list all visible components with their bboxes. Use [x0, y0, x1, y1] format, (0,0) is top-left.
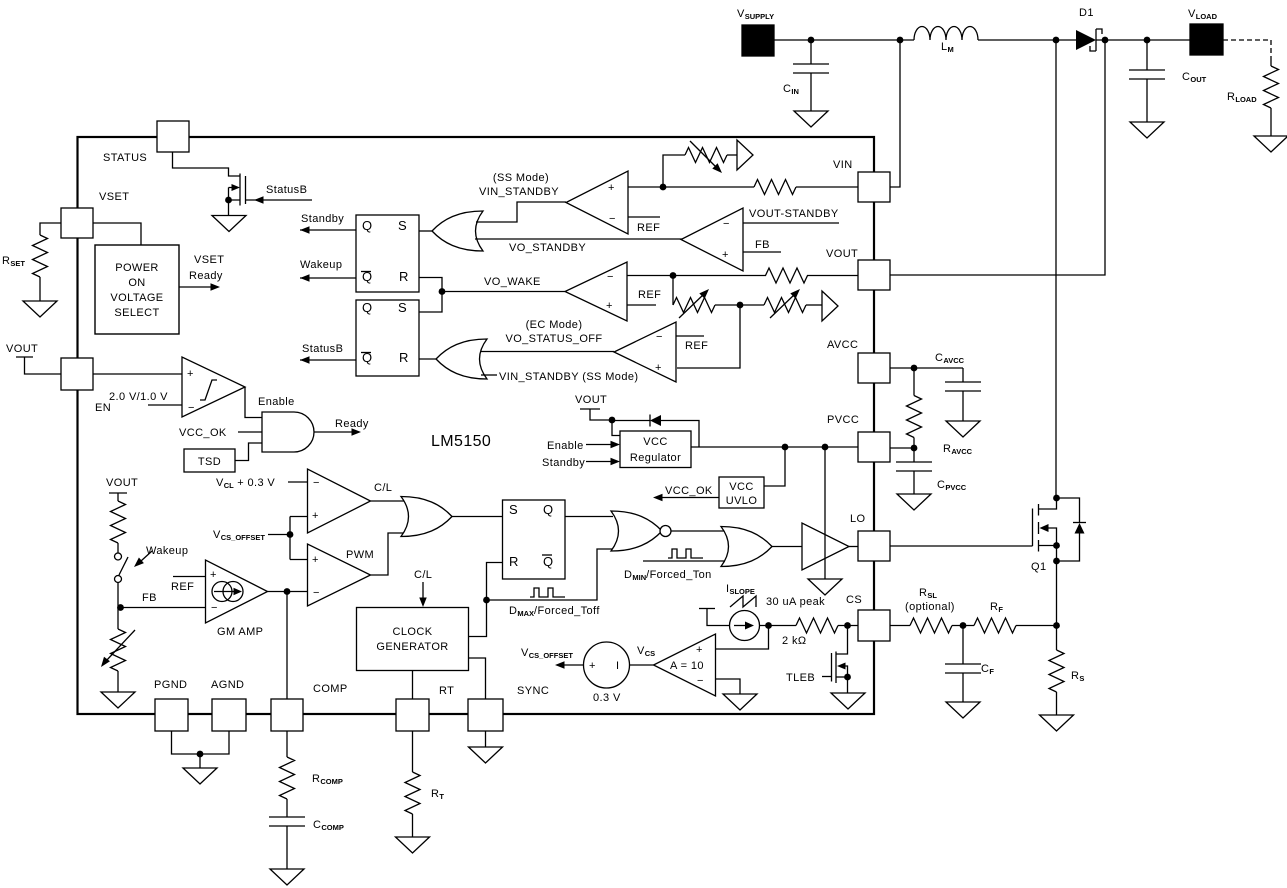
svg-text:VSET: VSET [99, 191, 129, 203]
node driver supply junction [822, 444, 829, 451]
resistor VOUT sense [766, 268, 808, 283]
pin PGND [155, 699, 188, 731]
svg-text:EN: EN [95, 402, 111, 414]
pin PVCC [858, 432, 890, 462]
svg-text:VCC_OK: VCC_OK [665, 485, 713, 497]
svg-text:CF: CF [981, 663, 994, 676]
node CF junction [960, 622, 967, 629]
resistor RAVCC [913, 368, 915, 396]
net REF stub of GM AMP [173, 576, 206, 578]
voltage source VCS offset 0.3V [584, 642, 630, 688]
net FB wire to GM AMP [121, 607, 206, 609]
wire COMP pin to RCOMP [286, 731, 288, 757]
pin SYNC [468, 699, 503, 731]
svg-text:D1: D1 [1079, 7, 1094, 19]
svg-text:VCS: VCS [637, 645, 655, 658]
svg-text:GM AMP: GM AMP [217, 626, 263, 638]
node standby divider junction [737, 302, 744, 309]
ground below A10 [723, 694, 757, 710]
ground below CAVCC [946, 421, 980, 437]
transistor Q1 [1032, 509, 1034, 547]
pin CS [858, 610, 890, 641]
signal Ready output arrow [314, 431, 353, 433]
svg-text:VCL + 0.3 V: VCL + 0.3 V [216, 477, 275, 490]
wire U1 output to SR1 S input [419, 230, 432, 232]
svg-text:Standby: Standby [301, 213, 344, 225]
svg-text:RCOMP: RCOMP [312, 773, 343, 786]
wire VSET pin to RSET [40, 223, 61, 235]
svg-text:Q: Q [543, 554, 554, 569]
ground below SYNC [469, 747, 503, 763]
resistor RSET [33, 235, 48, 277]
svg-text:−: − [723, 218, 730, 230]
svg-text:Q1: Q1 [1031, 561, 1046, 573]
wire LO pin to Q1 gate [890, 545, 1033, 547]
svg-text:C/L: C/L [414, 569, 432, 581]
svg-text:Enable: Enable [258, 396, 295, 408]
svg-text:I: I [616, 660, 619, 672]
node AVCC junction [911, 365, 918, 372]
comparator VIN_STANDBY (SS Mode) [566, 171, 628, 234]
resistor FB top divider [111, 501, 126, 543]
comparator VOUT-STANDBY [681, 208, 743, 271]
node COMP junction [284, 588, 291, 595]
ground below CCOMP [270, 869, 304, 885]
svg-text:VIN: VIN [833, 159, 853, 171]
net REF stub of VIN_STANDBY comparator [628, 216, 660, 218]
wire L_M to D1 anode [978, 39, 1076, 41]
or-gate U1 standby set [432, 211, 483, 251]
svg-text:COUT: COUT [1182, 71, 1207, 84]
node Q1 drain junction [1053, 495, 1060, 502]
wire divider junction [715, 304, 764, 306]
svg-text:REF: REF [171, 581, 194, 593]
svg-text:(SS Mode): (SS Mode) [493, 172, 549, 184]
ground below CIN [794, 111, 828, 127]
svg-text:Ready: Ready [335, 418, 369, 430]
svg-text:CPVCC: CPVCC [937, 479, 967, 492]
wire slope node to A10 + input [716, 626, 769, 650]
svg-text:VLOAD: VLOAD [1188, 8, 1218, 21]
pin AGND [212, 699, 246, 731]
wire junction to regulator input [612, 420, 620, 436]
node VCS_OFFSET junction [287, 531, 294, 538]
wire EN pin to comparator [93, 373, 182, 375]
svg-text:VOUT-STANDBY: VOUT-STANDBY [749, 208, 839, 220]
ground below status transistor [228, 200, 230, 216]
wire VIN_STANDBY + input to VIN divider node [628, 186, 754, 188]
node VOUT regulator junction [609, 417, 616, 424]
capacitor CCOMP [269, 817, 305, 826]
svg-text:Ready: Ready [189, 270, 223, 282]
svg-text:RLOAD: RLOAD [1227, 91, 1257, 104]
wire RF to RS node [1016, 625, 1057, 627]
wire 2k resistor to CS pin [838, 625, 858, 627]
wire A10 - input to ground [716, 679, 741, 694]
resistor RCOMP [280, 757, 295, 799]
wire VSUPPLY to L_M input node [774, 39, 914, 41]
transistor status PMOS [239, 174, 241, 206]
net VIN_STANDBY SS Mode stub [481, 374, 497, 376]
wire U5 output to U6 [671, 530, 725, 532]
svg-text:VO_STANDBY: VO_STANDBY [509, 242, 586, 254]
node switch junction (drain) [1053, 37, 1060, 44]
svg-text:VOLTAGE: VOLTAGE [110, 292, 163, 304]
svg-text:RAVCC: RAVCC [943, 443, 973, 456]
svg-text:RS: RS [1071, 670, 1084, 683]
wire Q1 source down to sense node [1056, 546, 1058, 626]
net DMIN Forced_Ton line [643, 560, 725, 562]
wire PWM latch Q output to U5 [565, 516, 613, 518]
wire VOUT sense down to VOUT pin [890, 40, 1105, 275]
svg-text:+: + [187, 368, 194, 380]
ground below COUT [1130, 122, 1164, 138]
svg-text:Q: Q [543, 502, 554, 517]
svg-text:VO_STATUS_OFF: VO_STATUS_OFF [505, 333, 602, 345]
node VIN sense junction [660, 184, 667, 191]
svg-text:PVCC: PVCC [827, 414, 859, 426]
net DMAX Forced_Toff line [487, 549, 615, 600]
node Q1 source junction [1053, 542, 1060, 549]
wire resistor to VIN pin [796, 186, 858, 188]
signal Standby output arrow [300, 229, 356, 231]
comparator C/L [308, 469, 371, 533]
svg-text:+: + [210, 569, 217, 581]
node body diode return junction [1053, 558, 1060, 565]
svg-text:VIN_STANDBY: VIN_STANDBY [479, 186, 559, 198]
net VCS_OFFSET input [268, 534, 290, 536]
svg-text:ISLOPE: ISLOPE [726, 583, 755, 596]
switch Wakeup [115, 553, 122, 560]
wire CS pin to RSL [890, 625, 910, 627]
block VCC UVLO [719, 477, 764, 508]
svg-text:−: − [211, 602, 218, 614]
pin COMP [271, 699, 303, 731]
net VO_STANDBY line [475, 238, 682, 240]
waveform pulse symbol DMIN [668, 549, 703, 558]
wire VO_WAKE comparator - input to VOUT divider [627, 275, 766, 277]
ground below TLEB [847, 677, 849, 693]
or-gate U6 lo-drive [721, 527, 772, 567]
driver LO buffer [802, 523, 849, 570]
svg-text:RF: RF [990, 601, 1003, 614]
wire clock to SYNC pin [469, 658, 486, 699]
net FB stub of VOUT-STANDBY comparator [743, 251, 781, 253]
svg-text:TLEB: TLEB [786, 672, 815, 684]
IC boundary LM5150 [78, 137, 875, 714]
svg-text:VSUPPLY: VSUPPLY [737, 8, 774, 21]
svg-text:VOUT: VOUT [826, 248, 858, 260]
waveform pulse symbol DMAX [530, 588, 565, 597]
wire dashed VLOAD to RLOAD [1223, 40, 1271, 56]
pin VSET [61, 208, 93, 238]
svg-text:VCS_OFFSET: VCS_OFFSET [521, 647, 573, 660]
svg-text:2 kΩ: 2 kΩ [782, 635, 807, 647]
diode bootstrap [612, 420, 650, 422]
svg-text:VSET: VSET [194, 254, 224, 266]
node RS junction [1053, 622, 1060, 629]
svg-text:PWM: PWM [346, 549, 374, 561]
wire ISLOPE to 2k resistor [760, 625, 797, 627]
svg-text:Standby: Standby [542, 457, 585, 469]
svg-text:AGND: AGND [211, 679, 244, 691]
node TLEB source junction [844, 674, 851, 681]
resistor RSL (optional) [910, 618, 952, 633]
wire resistor to VOUT pin [807, 275, 858, 277]
ground below FB divider [101, 692, 135, 708]
pin VOUT [858, 260, 890, 290]
wire PWM latch R input from clock [469, 563, 503, 637]
node status source junction [225, 197, 232, 204]
comparator VO_WAKE [565, 262, 627, 321]
wire D1 cathode to VLOAD [1096, 39, 1190, 41]
svg-text:VOUT: VOUT [6, 343, 38, 355]
wire U6 output to driver [771, 546, 802, 548]
inductor LM [914, 27, 978, 40]
svg-text:DMIN/Forced_Ton: DMIN/Forced_Ton [624, 569, 712, 582]
svg-text:A = 10: A = 10 [670, 660, 704, 672]
node slope junction [765, 622, 772, 629]
comparator VO_STATUS_OFF [614, 322, 676, 382]
variable resistor soft-start trim [685, 148, 727, 163]
svg-text:LM5150: LM5150 [431, 433, 491, 450]
svg-text:REF: REF [638, 289, 661, 301]
ground below PGND AGND [183, 768, 217, 784]
node DMAX junction [483, 597, 490, 604]
svg-text:REF: REF [685, 340, 708, 352]
block CLOCK GENERATOR [357, 608, 469, 671]
svg-text:+: + [606, 300, 613, 312]
node COUT junction [1144, 37, 1151, 44]
comparator PWM [308, 544, 371, 606]
capacitor CIN [810, 40, 812, 64]
block TSD [184, 449, 235, 472]
ground below RSET [23, 301, 57, 317]
svg-text:RSL: RSL [919, 587, 937, 600]
svg-text:+: + [312, 510, 319, 522]
block VCC Regulator [620, 431, 691, 468]
wire A10 output to source [630, 664, 654, 666]
svg-text:RT: RT [439, 685, 454, 697]
or-gate U4 pwm-or-cl [401, 497, 452, 537]
svg-text:VCC: VCC [729, 481, 753, 493]
svg-text:S: S [398, 300, 407, 315]
ground below driver [808, 579, 842, 595]
svg-text:R: R [509, 554, 519, 569]
svg-text:FB: FB [142, 592, 157, 604]
resistor RLOAD [1270, 56, 1272, 66]
net REF stub of VO_WAKE comparator [627, 304, 656, 306]
node PVCC junction [911, 445, 918, 452]
svg-text:StatusB: StatusB [302, 343, 343, 355]
ground below RS [1040, 715, 1074, 731]
nor-gate U5 [611, 511, 662, 551]
svg-text:VOUT: VOUT [106, 477, 138, 489]
variable resistor standby divider 1 [672, 276, 674, 306]
svg-text:Wakeup: Wakeup [146, 545, 188, 557]
svg-text:CAVCC: CAVCC [935, 352, 965, 365]
svg-text:CIN: CIN [783, 83, 799, 96]
wire comparator VIN_STANDBY output to U1 [476, 202, 566, 222]
pin RT [396, 699, 429, 731]
svg-text:+: + [589, 660, 596, 672]
and-gate U3 ready [262, 412, 314, 452]
wire SYNC pin to ground [485, 731, 487, 747]
pin STATUS [157, 121, 189, 152]
svg-text:VCS_OFFSET: VCS_OFFSET [213, 529, 265, 542]
node VOUT sense junction [1102, 37, 1109, 44]
svg-text:+: + [608, 182, 615, 194]
capacitor CF [962, 626, 964, 665]
svg-text:VIN_STANDBY (SS Mode): VIN_STANDBY (SS Mode) [499, 371, 638, 383]
svg-text:LO: LO [850, 513, 866, 525]
wire C/L output to U4 [371, 500, 410, 502]
node VO_WAKE junction [439, 288, 446, 295]
wire PVCC pin to CPVCC [890, 447, 914, 449]
svg-text:−: − [607, 271, 614, 283]
signal VCC_OK output arrow [662, 497, 719, 499]
pin EN [61, 358, 93, 390]
signal Wakeup output arrow [300, 277, 356, 279]
wire U4 output to PWM latch S input [451, 516, 503, 518]
capacitor CAVCC [962, 368, 964, 382]
svg-text:StatusB: StatusB [266, 184, 307, 196]
signal StatusB output arrow [300, 359, 356, 361]
capacitor CPVCC [913, 448, 915, 462]
wire VCC regulator output to PVCC pin [691, 446, 858, 448]
svg-text:2.0 V/1.0 V: 2.0 V/1.0 V [109, 391, 168, 403]
wire VSET pin to power-on block [93, 223, 141, 245]
wire divider junction to VO_STATUS_OFF + input [677, 305, 740, 368]
wire switch node down to Q1 drain [1055, 40, 1057, 498]
wire RT pin to RT resistor [412, 731, 414, 772]
svg-text:R: R [399, 350, 409, 365]
svg-text:RSET: RSET [2, 255, 25, 268]
node VCC UVLO junction [782, 444, 789, 451]
svg-text:SYNC: SYNC [517, 685, 549, 697]
wire RSL to CF node [952, 625, 974, 627]
svg-text:−: − [656, 331, 663, 343]
wire junction to soft-start trim resistor [663, 155, 685, 187]
svg-text:ON: ON [128, 277, 145, 289]
wire driver output to LO pin [849, 546, 858, 548]
resistor VIN sense [754, 180, 796, 195]
pin LO [858, 531, 890, 561]
or-gate U2 status reset [436, 339, 487, 379]
wire VO_STATUS_OFF output to U2 [481, 351, 614, 353]
node VOUT divider junction [670, 272, 677, 279]
body diode of Q1 [1057, 498, 1080, 523]
svg-text:SELECT: SELECT [114, 307, 159, 319]
svg-text:30 uA peak: 30 uA peak [766, 596, 825, 608]
svg-text:−: − [313, 587, 320, 599]
comparator EN [182, 357, 245, 417]
svg-text:Q: Q [362, 218, 373, 233]
wire AVCC pin to CAVCC [890, 367, 963, 369]
svg-text:CCOMP: CCOMP [313, 819, 344, 832]
wire driver supply through driver to ground [824, 447, 826, 579]
pin VIN [858, 172, 890, 202]
svg-text:GENERATOR: GENERATOR [376, 641, 448, 653]
net VCL threshold line [288, 481, 308, 483]
wire PWM output to U4 [371, 533, 405, 575]
ground below RT [396, 837, 430, 853]
wire EN comparator output to AND gate [245, 387, 262, 418]
svg-text:(EC Mode): (EC Mode) [526, 319, 583, 331]
net inverted REF stub of VO_STATUS_OFF comparator [676, 335, 704, 337]
svg-text:−: − [697, 675, 704, 687]
wire VCS_OFFSET to comparator + inputs [289, 517, 291, 560]
svg-text:−: − [188, 402, 195, 414]
latch SR1 [356, 215, 419, 292]
svg-text:COMP: COMP [313, 683, 348, 695]
svg-text:+: + [722, 249, 729, 261]
buffer standby divider [806, 304, 822, 306]
buffer soft-start [737, 140, 753, 170]
resistor 2 kOhm [796, 618, 838, 633]
svg-text:Regulator: Regulator [630, 452, 681, 464]
svg-text:FB: FB [755, 239, 770, 251]
svg-text:UVLO: UVLO [726, 495, 758, 507]
svg-text:+: + [696, 644, 703, 656]
block POWER ON VOLTAGE SELECT [95, 245, 179, 334]
wire clock to RT pin [412, 671, 414, 700]
svg-text:DMAX/Forced_Toff: DMAX/Forced_Toff [509, 605, 600, 618]
wire U2 output to SR2 R input [419, 358, 436, 360]
svg-text:RT: RT [431, 788, 444, 801]
resistor RT [405, 772, 420, 814]
node FB junction [117, 604, 124, 611]
wire VOUT-STANDBY - input line [743, 222, 839, 224]
svg-text:−: − [313, 477, 320, 489]
latch SR2 [356, 300, 419, 376]
svg-text:Wakeup: Wakeup [300, 259, 342, 271]
svg-text:VO_WAKE: VO_WAKE [484, 276, 541, 288]
wire TSD to AND gate [235, 443, 262, 461]
svg-text:(optional): (optional) [905, 601, 955, 613]
wire StatusB gate drive [246, 199, 313, 201]
wire COMP node to COMP pin [286, 592, 288, 700]
svg-text:TSD: TSD [198, 456, 221, 468]
svg-text:REF: REF [637, 222, 660, 234]
svg-text:Q: Q [362, 300, 373, 315]
svg-text:CS: CS [846, 594, 862, 606]
svg-text:VCC: VCC [643, 436, 667, 448]
svg-text:R: R [399, 269, 409, 284]
svg-text:0.3 V: 0.3 V [593, 692, 621, 704]
svg-text:POWER: POWER [115, 262, 159, 274]
svg-text:S: S [398, 218, 407, 233]
svg-text:LM: LM [941, 41, 954, 54]
latch PWM SR [503, 500, 566, 579]
svg-text:−: − [609, 213, 616, 225]
ground below CF [946, 702, 980, 718]
capacitor COUT [1146, 40, 1148, 70]
diode D1 [1076, 30, 1096, 50]
svg-text:AVCC: AVCC [827, 339, 858, 351]
resistor RF [974, 618, 1016, 633]
ground below RLOAD [1254, 136, 1287, 152]
wire junction down to VIN pin [890, 40, 900, 187]
node VIN branch junction [897, 37, 904, 44]
amplifier A10 current sense [654, 634, 716, 696]
signal VCC_OK input [238, 431, 262, 433]
wire SR1 R and SR2 S inputs [419, 278, 442, 313]
node PGND AGND junction [197, 751, 204, 758]
wire PGND AGND to ground [172, 731, 230, 754]
svg-text:Enable: Enable [547, 440, 584, 452]
node input junction at CIN [808, 37, 815, 44]
